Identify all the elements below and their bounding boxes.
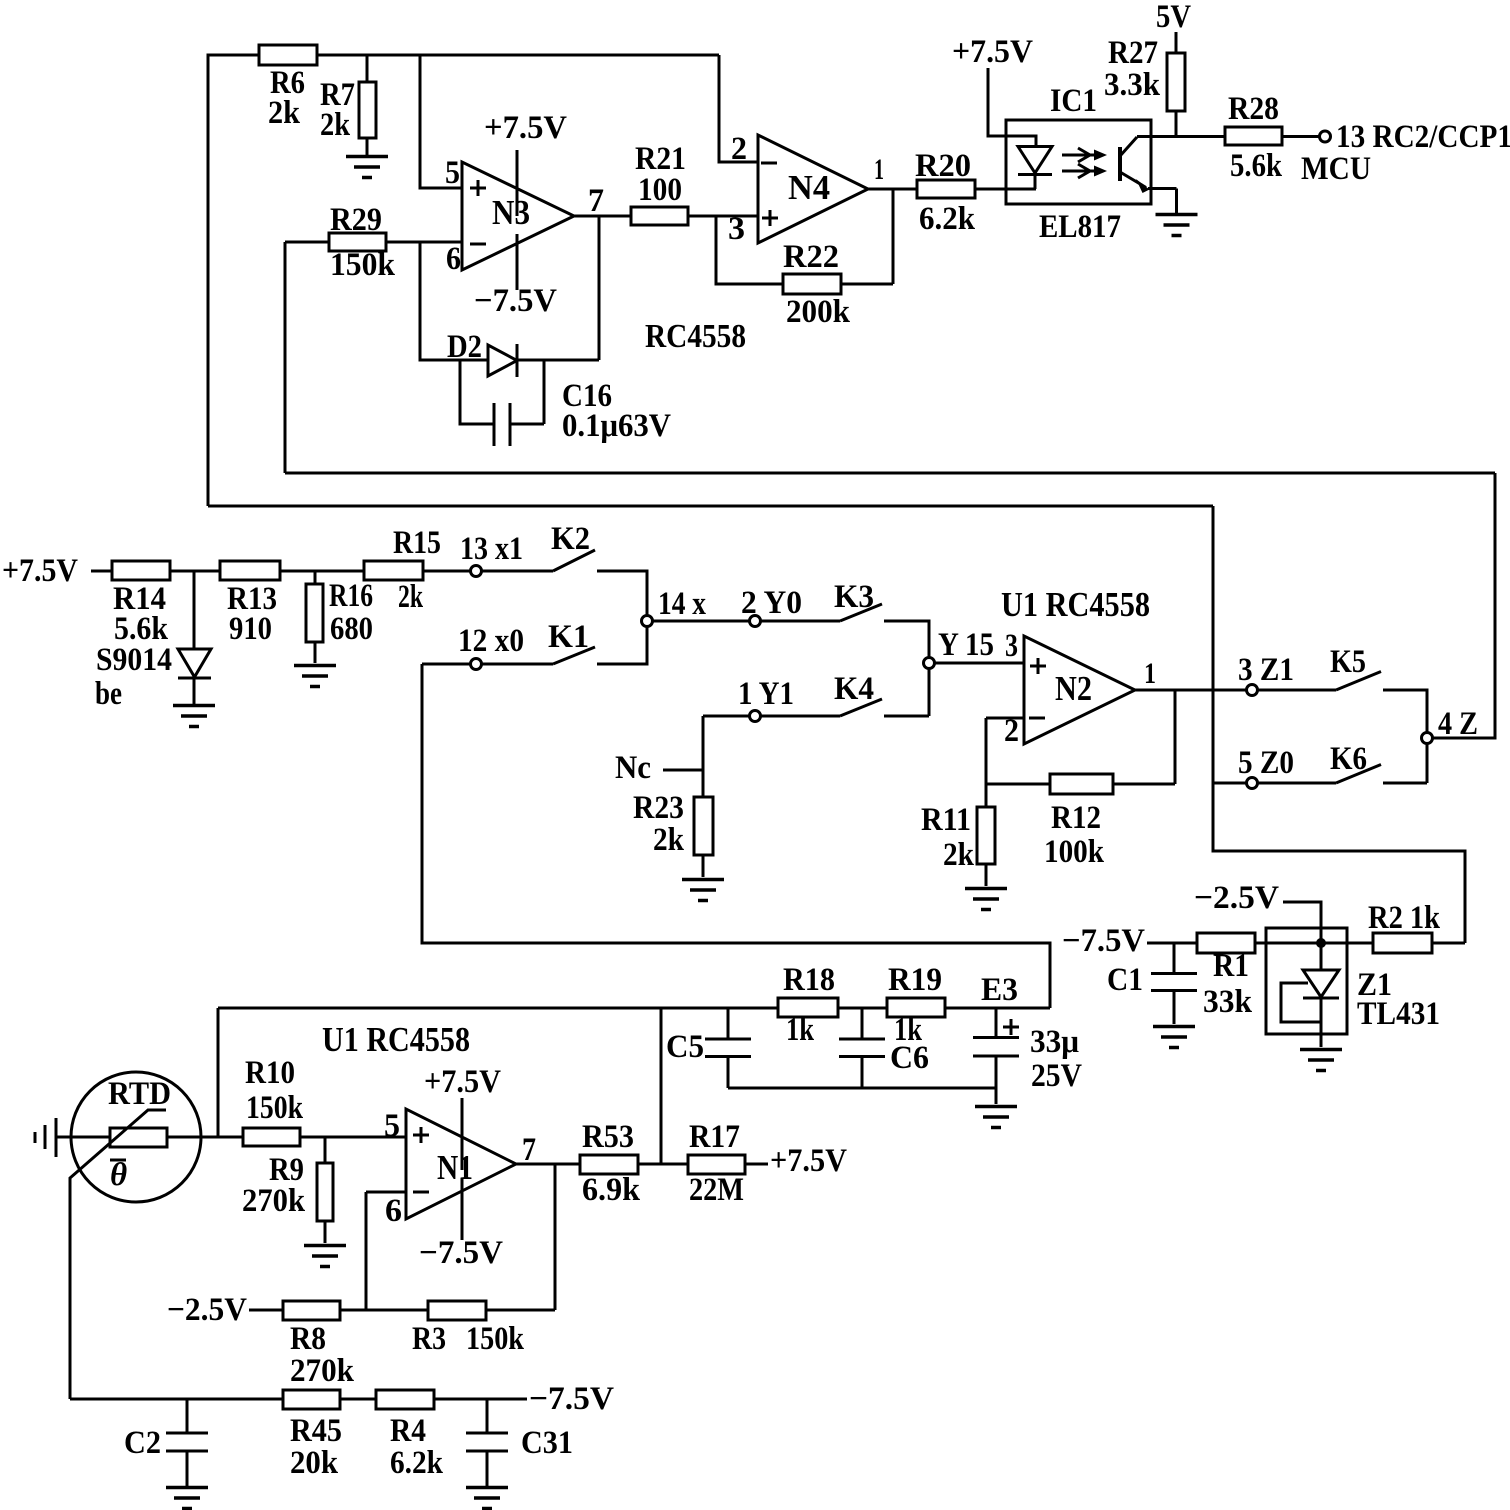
svg-text:D2: D2 [447, 329, 482, 365]
svg-text:5: 5 [384, 1108, 400, 1144]
svg-text:−7.5V: −7.5V [1062, 923, 1145, 959]
svg-text:5 Z0: 5 Z0 [1238, 745, 1294, 781]
svg-text:200k: 200k [786, 294, 851, 330]
svg-text:270k: 270k [290, 1353, 355, 1389]
svg-text:R28: R28 [1228, 91, 1279, 127]
svg-text:R20: R20 [915, 148, 971, 184]
svg-text:2k: 2k [268, 95, 301, 131]
svg-text:K5: K5 [1330, 644, 1366, 680]
svg-text:6.2k: 6.2k [390, 1445, 444, 1481]
svg-text:3: 3 [728, 211, 745, 247]
svg-text:2: 2 [1004, 713, 1019, 749]
svg-text:C31: C31 [521, 1425, 573, 1461]
svg-text:N4: N4 [788, 168, 830, 207]
svg-text:K2: K2 [551, 521, 590, 557]
svg-text:R18: R18 [783, 962, 835, 998]
svg-text:−2.5V: −2.5V [167, 1292, 247, 1328]
svg-text:1: 1 [1144, 657, 1156, 690]
svg-text:−7.5V: −7.5V [474, 283, 557, 319]
svg-text:3 Z1: 3 Z1 [1238, 652, 1294, 688]
svg-text:7: 7 [522, 1132, 536, 1168]
svg-text:R27: R27 [1108, 35, 1158, 71]
svg-text:5.6k: 5.6k [1230, 148, 1283, 184]
svg-text:13 x1: 13 x1 [460, 531, 523, 567]
svg-text:RC4558: RC4558 [645, 318, 746, 355]
svg-text:R45: R45 [290, 1413, 342, 1449]
svg-text:12 x0: 12 x0 [458, 623, 524, 659]
svg-text:13 RC2/CCP1: 13 RC2/CCP1 [1336, 119, 1510, 155]
svg-text:Nc: Nc [615, 750, 651, 786]
svg-text:2: 2 [731, 131, 747, 167]
svg-text:N1: N1 [437, 1148, 473, 1187]
svg-text:6.2k: 6.2k [919, 201, 976, 237]
svg-text:U1 RC4558: U1 RC4558 [322, 1020, 470, 1059]
svg-text:20k: 20k [290, 1445, 339, 1481]
svg-text:R19: R19 [888, 962, 942, 998]
svg-text:+7.5V: +7.5V [2, 553, 78, 589]
svg-text:R1: R1 [1213, 948, 1249, 984]
svg-text:22M: 22M [689, 1172, 744, 1208]
svg-text:θ: θ [110, 1157, 127, 1193]
svg-text:EL817: EL817 [1039, 209, 1121, 245]
svg-text:150k: 150k [330, 247, 396, 283]
svg-text:R53: R53 [582, 1119, 634, 1155]
svg-text:TL431: TL431 [1357, 996, 1440, 1032]
svg-text:R10: R10 [245, 1055, 295, 1091]
svg-text:6.9k: 6.9k [582, 1172, 641, 1208]
svg-text:1 Y1: 1 Y1 [738, 676, 794, 712]
svg-text:3: 3 [1005, 628, 1018, 664]
svg-text:E3: E3 [981, 972, 1018, 1008]
svg-text:K4: K4 [834, 671, 874, 707]
svg-text:+7.5V: +7.5V [484, 110, 567, 146]
svg-text:270k: 270k [242, 1183, 306, 1219]
svg-text:680: 680 [330, 611, 373, 647]
svg-text:0.1μ63V: 0.1μ63V [562, 408, 671, 444]
svg-text:100k: 100k [1044, 834, 1105, 870]
svg-text:Y 15: Y 15 [938, 627, 994, 663]
svg-text:R23: R23 [633, 790, 684, 826]
svg-text:R29: R29 [330, 202, 382, 238]
svg-text:RTD: RTD [108, 1076, 171, 1112]
svg-text:2k: 2k [653, 822, 685, 858]
svg-text:R16: R16 [329, 578, 373, 614]
svg-text:+7.5V: +7.5V [424, 1064, 501, 1100]
svg-text:7: 7 [588, 183, 604, 219]
svg-text:R2 1k: R2 1k [1368, 900, 1441, 936]
svg-text:33k: 33k [1203, 984, 1253, 1020]
svg-text:U1 RC4558: U1 RC4558 [1001, 585, 1150, 624]
svg-text:MCU: MCU [1301, 151, 1371, 187]
svg-text:3.3k: 3.3k [1104, 67, 1161, 103]
svg-text:−2.5V: −2.5V [1194, 880, 1279, 916]
svg-text:6: 6 [385, 1193, 402, 1229]
svg-text:C6: C6 [890, 1040, 929, 1076]
svg-text:K3: K3 [834, 579, 874, 615]
svg-text:R15: R15 [393, 525, 441, 561]
svg-text:R22: R22 [783, 239, 839, 275]
svg-text:−7.5V: −7.5V [529, 1381, 614, 1417]
svg-text:2k: 2k [320, 107, 351, 143]
svg-text:150k: 150k [246, 1090, 304, 1126]
svg-text:C2: C2 [124, 1425, 161, 1461]
svg-text:14 x: 14 x [658, 586, 706, 622]
svg-text:S9014: S9014 [96, 642, 172, 678]
svg-text:N2: N2 [1055, 669, 1092, 708]
svg-text:R3: R3 [412, 1321, 446, 1357]
svg-text:+7.5V: +7.5V [770, 1143, 847, 1179]
svg-text:150k: 150k [466, 1321, 525, 1357]
svg-text:be: be [95, 676, 122, 712]
svg-text:IC1: IC1 [1050, 83, 1097, 119]
svg-text:4 Z: 4 Z [1438, 706, 1478, 742]
svg-text:C1: C1 [1107, 962, 1143, 998]
svg-text:N3: N3 [492, 193, 530, 232]
svg-text:25V: 25V [1031, 1058, 1082, 1094]
svg-text:R12: R12 [1051, 800, 1101, 836]
svg-text:2k: 2k [398, 579, 423, 615]
svg-text:6: 6 [446, 241, 461, 277]
svg-text:+7.5V: +7.5V [952, 34, 1033, 70]
svg-text:100: 100 [638, 172, 682, 208]
svg-text:R4: R4 [390, 1413, 426, 1449]
svg-text:1: 1 [874, 153, 884, 186]
svg-text:R17: R17 [689, 1119, 740, 1155]
svg-text:2k: 2k [943, 837, 975, 873]
svg-text:2 Y0: 2 Y0 [741, 585, 802, 621]
svg-text:33μ: 33μ [1030, 1024, 1079, 1060]
svg-text:R11: R11 [921, 802, 971, 838]
svg-text:910: 910 [229, 611, 272, 647]
svg-text:−7.5V: −7.5V [419, 1235, 503, 1271]
svg-text:C5: C5 [666, 1029, 704, 1065]
svg-text:K6: K6 [1330, 741, 1367, 777]
svg-text:1k: 1k [786, 1012, 815, 1048]
svg-text:5: 5 [445, 155, 460, 191]
svg-text:R8: R8 [290, 1321, 326, 1357]
svg-text:5V: 5V [1156, 0, 1191, 35]
svg-text:K1: K1 [548, 619, 589, 655]
